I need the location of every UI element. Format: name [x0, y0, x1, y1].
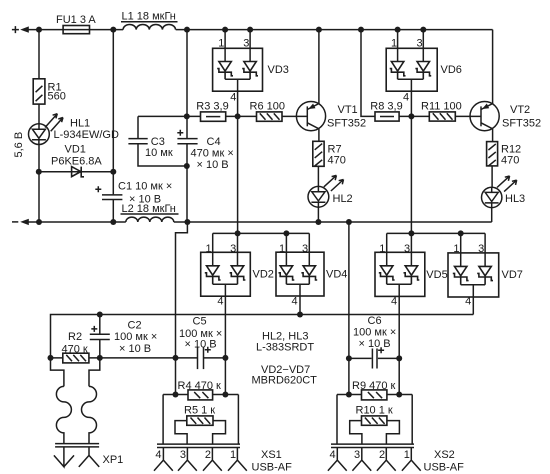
svg-text:470: 470: [501, 154, 519, 166]
resistor R5 1k: [175, 404, 226, 444]
dual schottky diode VD4: [276, 233, 347, 307]
svg-text:R6 100: R6 100: [250, 100, 285, 112]
svg-text:1: 1: [218, 38, 224, 50]
connector XS2 USB-AF: [328, 444, 464, 473]
terminal node minus (-) bottom-left: [12, 219, 29, 225]
inductor L1 18uH: [121, 11, 178, 30]
resistor R10 1k: [350, 404, 400, 444]
svg-text:1: 1: [404, 449, 410, 461]
capacitor C2 100uF polar: [90, 315, 157, 358]
svg-text:1: 1: [379, 243, 385, 255]
svg-text:R11 100: R11 100: [421, 100, 462, 112]
svg-text:C6: C6: [368, 315, 382, 327]
svg-text:470 мк ×: 470 мк ×: [191, 148, 234, 160]
wire rail to C1: [112, 30, 114, 195]
svg-text:L-934EW/GD: L-934EW/GD: [54, 129, 119, 141]
svg-text:4: 4: [391, 296, 397, 308]
dual schottky diode VD7: [448, 233, 523, 307]
svg-text:10 мк: 10 мк: [145, 147, 173, 159]
svg-text:4: 4: [292, 296, 298, 308]
wire rail to R1: [38, 30, 40, 79]
wire R7 to HL2: [317, 166, 319, 186]
wire XS1 outer frame: [163, 395, 238, 445]
svg-text:3: 3: [302, 243, 308, 255]
wire node VD2/VD4 feed row: [213, 230, 310, 236]
LED HL2: [308, 175, 353, 207]
svg-text:3: 3: [180, 449, 186, 461]
resistor R8 3,9: [370, 100, 402, 121]
dual schottky diode VD3: [213, 30, 289, 104]
svg-text:× 10 В: × 10 В: [197, 159, 229, 171]
svg-text:2: 2: [205, 449, 211, 461]
wire HL2 to minus rail: [317, 207, 319, 222]
wire C1 to minus rail: [112, 200, 114, 223]
svg-text:C1 10 мк ×: C1 10 мк ×: [118, 180, 172, 192]
svg-text:4: 4: [230, 91, 236, 103]
resistor R3 3,9: [196, 100, 228, 121]
note VD2-VD7 type: [252, 364, 318, 387]
wire VD2 pin4 column down: [224, 296, 226, 394]
LED HL1 L-934EW/GD: [29, 114, 119, 145]
wire node VD5/VD7 feed row: [387, 230, 485, 236]
svg-text:HL1: HL1: [70, 117, 90, 129]
svg-text:VT1: VT1: [338, 104, 358, 116]
dual schottky diode VD6: [386, 30, 462, 104]
svg-text:VD1: VD1: [65, 143, 86, 155]
svg-text:HL2: HL2: [333, 193, 353, 205]
wire minus rail step down to lower network: [176, 222, 188, 395]
svg-text:2: 2: [379, 449, 385, 461]
resistor R11 100: [421, 100, 462, 121]
svg-text:L1 18 мкГн: L1 18 мкГн: [122, 11, 176, 23]
wire VT2 collector to R12: [492, 129, 494, 142]
wire R8 to R11: [399, 113, 429, 119]
wire HL3 to minus rail: [491, 208, 493, 222]
svg-text:3: 3: [478, 243, 484, 255]
wire VT1 emitter to rail: [318, 30, 320, 104]
svg-text:3: 3: [404, 243, 410, 255]
svg-text:1: 1: [391, 38, 397, 50]
svg-text:100 мк ×: 100 мк ×: [353, 327, 396, 339]
svg-text:XP1: XP1: [103, 454, 124, 466]
svg-text:XS2: XS2: [434, 449, 455, 461]
capacitor C4 470uF polar: [177, 30, 233, 222]
svg-text:VD4: VD4: [326, 268, 347, 280]
resistor R1 560: [33, 79, 66, 104]
wire node R3/R6 row: [138, 113, 307, 119]
dual schottky diode VD2: [201, 233, 274, 307]
svg-text:C2: C2: [128, 320, 142, 332]
svg-text:R8 3,9: R8 3,9: [370, 100, 402, 112]
fuse FU1 3A: [56, 14, 96, 34]
svg-text:× 10 В: × 10 В: [119, 343, 151, 355]
svg-text:4: 4: [329, 449, 335, 461]
svg-text:4: 4: [403, 92, 409, 104]
resistor R7 470: [313, 141, 346, 166]
svg-text:3: 3: [354, 449, 360, 461]
svg-text:USB-AF: USB-AF: [424, 462, 465, 474]
svg-text:C3: C3: [151, 136, 165, 148]
svg-text:R4 470 к: R4 470 к: [178, 380, 222, 392]
svg-text:R10 1 к: R10 1 к: [356, 404, 393, 416]
svg-text:C4: C4: [207, 136, 221, 148]
dual schottky diode VD5: [375, 233, 448, 307]
svg-text:VD6: VD6: [441, 64, 462, 76]
svg-text:C5: C5: [193, 316, 207, 328]
wire output node row y=314.5: [51, 312, 474, 358]
inductor L2 18uH: [121, 203, 179, 222]
svg-text:4: 4: [155, 449, 161, 461]
note HL2, HL3 type: [256, 330, 314, 353]
svg-text:5,6 В: 5,6 В: [13, 132, 25, 158]
capacitor C1 10uF polar: [95, 180, 172, 205]
connector XP1 plug: [51, 358, 124, 467]
terminal node plus (+) top-left: [12, 26, 29, 33]
wire VD3 pin4 column down: [237, 91, 239, 233]
wire rail feed to R8: [361, 30, 375, 117]
connector XS1 USB-AF: [154, 444, 292, 473]
transistor VT2 SFT352: [470, 102, 541, 131]
svg-text:4: 4: [465, 296, 471, 308]
wire R12 to HL3: [491, 166, 493, 187]
wire node C2/C5 row y=357.9: [48, 355, 229, 361]
svg-text:1: 1: [453, 243, 459, 255]
svg-text:VD3: VD3: [268, 64, 289, 76]
svg-text:USB-AF: USB-AF: [252, 462, 293, 474]
svg-text:4: 4: [217, 296, 223, 308]
svg-text:FU1 3 A: FU1 3 A: [56, 14, 96, 26]
svg-text:1: 1: [230, 449, 236, 461]
svg-text:× 10 В: × 10 В: [185, 339, 217, 351]
resistor R9 470k: [337, 380, 412, 400]
svg-text:SFT352: SFT352: [327, 117, 366, 129]
wire VD7 pin4 down: [472, 297, 474, 315]
svg-text:100 мк ×: 100 мк ×: [114, 331, 157, 343]
svg-text:3: 3: [243, 38, 249, 50]
resistor R4 470k: [163, 380, 238, 400]
wire VD4 pin4 to output node: [299, 296, 301, 315]
svg-text:MBRD620CT: MBRD620CT: [252, 375, 318, 387]
diode VD1 P6KE6.8A: [51, 143, 102, 177]
svg-text:1: 1: [205, 243, 211, 255]
resistor R6 100: [250, 100, 285, 121]
svg-text:VD7: VD7: [502, 269, 523, 281]
svg-text:560: 560: [48, 91, 66, 103]
wire VD6 pin4 column down: [410, 91, 412, 233]
wire VT1 collector to R7: [318, 129, 320, 142]
LED HL3: [482, 176, 526, 208]
svg-text:3: 3: [230, 243, 236, 255]
wire HL1 down to minus rail: [36, 145, 42, 223]
svg-text:VT2: VT2: [510, 104, 530, 116]
svg-text:VD2: VD2: [253, 268, 274, 280]
svg-text:R3 3,9: R3 3,9: [196, 100, 228, 112]
wire R11 to VT2 base: [455, 115, 481, 117]
svg-text:470: 470: [328, 154, 346, 166]
wire VT2 emitter to rail corner: [492, 30, 494, 104]
wire R1 to HL1: [38, 104, 40, 124]
svg-text:XS1: XS1: [261, 449, 282, 461]
resistor R2 470k: [51, 331, 100, 363]
svg-text:R9 470 к: R9 470 к: [352, 380, 396, 392]
svg-text:P6KE6.8A: P6KE6.8A: [51, 155, 102, 167]
svg-text:VD5: VD5: [426, 269, 447, 281]
wire bottom minus rail: [26, 219, 492, 225]
capacitor C3 10uF: [128, 116, 189, 169]
svg-text:× 10 В: × 10 В: [359, 338, 391, 350]
svg-text:470 к: 470 к: [62, 343, 88, 355]
capacitor C5 100uF polar: [179, 316, 222, 370]
svg-text:1: 1: [279, 243, 285, 255]
wire top +5.6V rail: [26, 27, 493, 33]
svg-text:L-383SRDT: L-383SRDT: [256, 341, 314, 353]
svg-text:R5 1 к: R5 1 к: [184, 404, 215, 416]
wire XS2 outer frame: [337, 395, 412, 445]
resistor R12 470: [487, 142, 522, 167]
svg-text:R2: R2: [68, 331, 82, 343]
transistor VT1 SFT352: [296, 102, 366, 131]
svg-text:HL3: HL3: [505, 193, 525, 205]
wire rail to C6 column: [346, 222, 352, 398]
wire VD1 branch: [39, 169, 117, 175]
svg-text:L2 18 мкГн: L2 18 мкГн: [122, 203, 176, 215]
svg-text:3: 3: [416, 38, 422, 50]
capacitor C6 100uF polar: [349, 315, 402, 398]
svg-text:SFT352: SFT352: [502, 117, 541, 129]
wire VD5 pin4 column down: [398, 296, 400, 394]
